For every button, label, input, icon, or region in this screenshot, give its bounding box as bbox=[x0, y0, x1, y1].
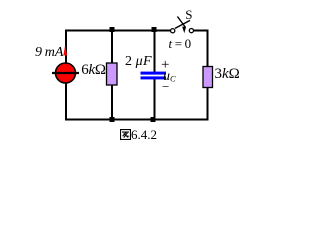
label: - (capacitor voltage polarity, negative) bbox=[162, 79, 169, 95]
switch S: closing-direction arrow shaft bbox=[177, 17, 185, 28]
current source Is: horizontal bar through symbol bbox=[52, 72, 79, 74]
switch S: closing-direction arrowhead (points down) bbox=[182, 27, 186, 34]
label: + (capacitor voltage polarity, positive) bbox=[161, 57, 169, 74]
wire: left vertical upper segment (above current source) bbox=[65, 30, 67, 64]
junction dot: top of capacitor branch bbox=[152, 27, 157, 32]
wire: left vertical lower segment (below current source) bbox=[65, 84, 67, 121]
label: S (switch name) bbox=[185, 7, 192, 23]
junction dot: bottom of 6k-ohm branch bbox=[110, 117, 115, 122]
label: t = 0 (switching time) bbox=[169, 36, 192, 52]
switch S: right terminal circle bbox=[189, 29, 193, 33]
label: 2 uF (capacitor value) bbox=[125, 54, 152, 70]
junction dot: top of 6k-ohm branch bbox=[110, 27, 115, 32]
wire: right vertical upper segment (above 3k resistor) bbox=[207, 30, 209, 67]
capacitor C 2uF: top plate (blue) bbox=[141, 72, 167, 75]
wire: bottom horizontal bus bbox=[65, 119, 209, 121]
label: 6 k-ohm (resistor R1 value) bbox=[81, 62, 105, 79]
switch S: blade (open, slanted up-right) bbox=[175, 20, 190, 28]
label: 3 k-ohm (resistor R2 value) bbox=[215, 66, 240, 83]
capacitor C 2uF: bottom plate (blue) bbox=[141, 76, 167, 79]
resistor R2 3k-ohm: body bbox=[203, 67, 213, 88]
wire: 6k-ohm branch lower segment bbox=[111, 85, 113, 121]
wire: right vertical lower segment (below 3k resistor) bbox=[207, 87, 209, 121]
junction dot: bottom of capacitor branch bbox=[151, 117, 156, 122]
wire: top right segment from switch right terminal to right corner bbox=[193, 30, 208, 32]
wire: top horizontal bus from left corner to switch left terminal bbox=[65, 30, 171, 32]
resistor R1 6k-ohm: body bbox=[107, 63, 118, 85]
current direction arrow (red, pointing up) on left branch bbox=[63, 45, 67, 55]
caption: figure number 6.4.2 bbox=[120, 127, 157, 143]
current source Is: red circle symbol bbox=[56, 63, 76, 83]
label: uC (capacitor voltage) bbox=[163, 69, 176, 85]
wire: capacitor branch upper segment bbox=[154, 30, 156, 73]
switch S: left terminal circle bbox=[171, 29, 175, 33]
wire: 6k-ohm branch upper segment bbox=[111, 30, 113, 64]
label: 9 mA (current source value) bbox=[35, 45, 63, 61]
wire: capacitor branch lower segment bbox=[154, 79, 156, 121]
